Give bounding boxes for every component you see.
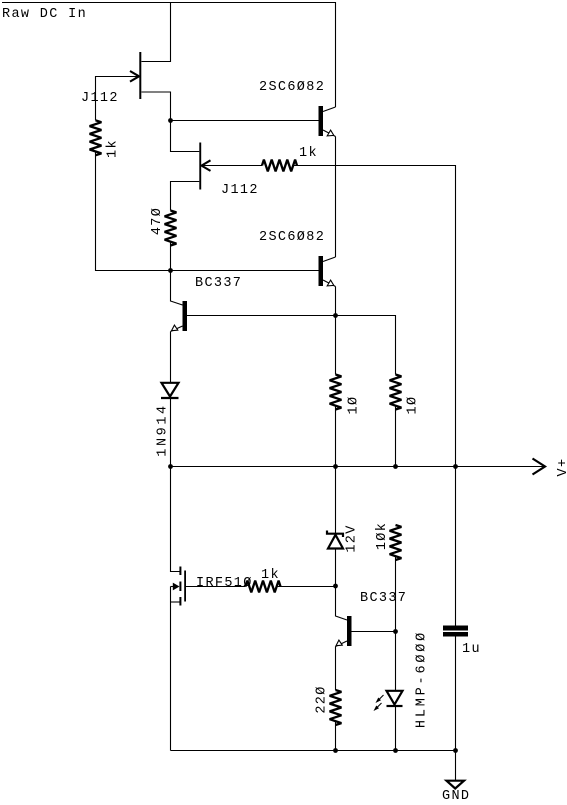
svg-text:HLMP-6ØØØ: HLMP-6ØØØ: [415, 630, 430, 728]
svg-text:47Ø: 47Ø: [150, 207, 165, 235]
svg-text:1k: 1k: [299, 146, 318, 161]
svg-text:2SC6Ø82: 2SC6Ø82: [259, 80, 325, 95]
svg-text:GND: GND: [442, 789, 470, 804]
svg-text:BC337: BC337: [195, 276, 242, 291]
svg-text:1u: 1u: [462, 642, 481, 657]
svg-text:1Ø: 1Ø: [347, 396, 362, 415]
svg-text:2SC6Ø82: 2SC6Ø82: [259, 230, 325, 245]
svg-text:1Øk: 1Øk: [375, 522, 390, 550]
svg-text:Raw DC In: Raw DC In: [2, 7, 87, 22]
svg-text:J112: J112: [221, 183, 259, 198]
svg-text:IRF51Ø: IRF51Ø: [196, 576, 253, 591]
svg-text:1N914: 1N914: [156, 403, 171, 457]
svg-text:1k: 1k: [261, 568, 280, 583]
svg-text:22Ø: 22Ø: [315, 685, 330, 713]
svg-text:V+: V+: [556, 458, 567, 477]
svg-text:BC337: BC337: [360, 591, 407, 606]
svg-text:J112: J112: [81, 91, 119, 106]
svg-text:1k: 1k: [106, 139, 121, 158]
svg-text:12V: 12V: [345, 524, 360, 552]
svg-text:1Ø: 1Ø: [406, 396, 421, 415]
